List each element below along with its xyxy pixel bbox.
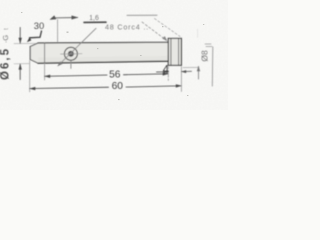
leader to hole and chamfer	[57, 28, 96, 66]
hole vertical centerline	[70, 61, 72, 69]
svg-text:Ø6,5: Ø6,5	[0, 47, 11, 80]
dimension 4 head width	[157, 64, 192, 91]
top extension line	[57, 20, 59, 43]
chamfer angle label 30deg	[34, 20, 44, 31]
svg-text:30: 30	[34, 20, 44, 31]
head right face	[180, 38, 182, 65]
left diameter dimension 6,5	[0, 28, 36, 80]
scan speckles	[21, 12, 204, 100]
chamfer bottom line	[30, 59, 38, 63]
head inner right line	[178, 39, 180, 65]
chamfer leader line	[27, 31, 42, 42]
svg-text:4: 4	[163, 64, 170, 76]
scan background	[0, 0, 228, 110]
note text	[105, 15, 157, 31]
pin body bottom edge	[38, 61, 168, 63]
head inner left line	[170, 38, 172, 65]
leader to head 2	[155, 19, 181, 37]
svg-text:56: 56	[109, 70, 121, 81]
dimension 56	[44, 64, 169, 81]
head shoulder line	[167, 38, 169, 65]
chamfer top line	[30, 43, 38, 47]
head top edge	[168, 37, 181, 39]
small value label y,y	[84, 15, 106, 22]
pin left end face	[29, 47, 31, 60]
small top dimension line	[50, 15, 79, 19]
dimension 60	[29, 61, 182, 93]
chamfer edge line	[44, 43, 46, 63]
svg-text:Ø8: Ø8	[200, 50, 210, 62]
svg-text:1,6: 1,6	[89, 15, 99, 22]
hole centerline	[61, 53, 83, 55]
leader to head 1	[142, 22, 168, 41]
svg-text:48 Corc4 .:: 48 Corc4 .:	[105, 23, 149, 32]
right diameter dimension 8	[183, 29, 213, 86]
pin body interior shading	[30, 38, 181, 65]
head bottom edge	[168, 64, 181, 66]
svg-text:60: 60	[112, 81, 124, 92]
svg-text:·G: ·G	[1, 35, 10, 43]
split-pin hole	[64, 47, 77, 60]
pin body top edge	[38, 41, 168, 44]
